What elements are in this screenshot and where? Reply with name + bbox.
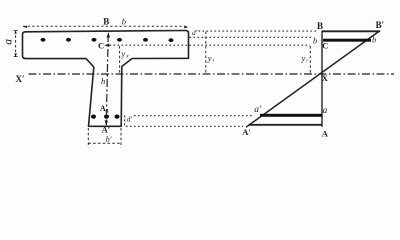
svg-text:x: x <box>125 54 129 60</box>
svg-text:a: a <box>3 39 15 45</box>
svg-text:A: A <box>100 104 106 113</box>
svg-text:A: A <box>322 129 329 139</box>
svg-text:C: C <box>322 41 328 51</box>
svg-text:y: y <box>121 49 126 59</box>
svg-text:B′: B′ <box>376 20 385 30</box>
svg-text:b: b <box>122 17 126 27</box>
svg-text:X: X <box>322 73 329 83</box>
svg-text:d′: d′ <box>192 28 198 37</box>
svg-text:A′: A′ <box>102 124 111 134</box>
svg-text:A′: A′ <box>242 127 251 137</box>
svg-text:X′: X′ <box>16 74 25 84</box>
svg-text:1: 1 <box>106 108 109 114</box>
svg-text:b′: b′ <box>106 135 112 144</box>
svg-text:y: y <box>301 53 306 63</box>
svg-text:d′: d′ <box>127 115 133 124</box>
svg-text:C: C <box>98 41 104 51</box>
svg-text:a: a <box>323 106 328 116</box>
svg-text:h: h <box>101 76 105 86</box>
svg-text:y: y <box>207 53 212 63</box>
svg-text:B: B <box>317 21 323 31</box>
svg-text:b: b <box>372 35 376 45</box>
svg-text:B: B <box>103 16 109 26</box>
svg-text:b: b <box>313 35 317 45</box>
svg-text:a′: a′ <box>254 105 262 115</box>
